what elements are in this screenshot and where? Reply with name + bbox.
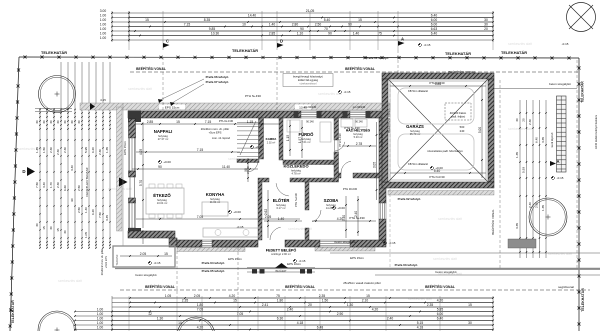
svg-text:TERASZ: TERASZ (115, 254, 119, 265)
svg-text:1.00: 1.00 (97, 312, 104, 316)
svg-text:1.00: 1.00 (100, 32, 107, 36)
svg-text:90: 90 (70, 198, 74, 202)
svg-text:helyiség: helyiség (158, 134, 168, 138)
svg-text:15: 15 (233, 299, 237, 303)
svg-text:3.40: 3.40 (342, 215, 346, 221)
svg-text:-0.15: -0.15 (389, 241, 396, 245)
svg-text:7.50: 7.50 (98, 212, 102, 218)
svg-text:2.40: 2.40 (287, 308, 294, 312)
svg-text:1.10: 1.10 (297, 32, 304, 36)
svg-text:5.95: 5.95 (84, 147, 88, 153)
svg-text:NAPPALI: NAPPALI (154, 129, 173, 134)
svg-text:helyiség: helyiség (157, 198, 167, 202)
svg-text:FEDETLEN TERASZ: FEDETLEN TERASZ (85, 167, 89, 196)
svg-text:-0.15: -0.15 (562, 42, 569, 46)
svg-text:PTH N+F30: PTH N+F30 (344, 126, 360, 130)
svg-text:1.50: 1.50 (322, 299, 329, 303)
svg-text:ACO kültéri lefolyó fedrács: ACO kültéri lefolyó fedrács (594, 114, 598, 149)
svg-text:+0.00: +0.00 (337, 206, 345, 210)
svg-text:2.30: 2.30 (63, 147, 67, 153)
svg-text:3.05: 3.05 (372, 162, 376, 168)
svg-text:90: 90 (328, 32, 332, 36)
svg-text:20: 20 (522, 118, 526, 122)
svg-text:1.00: 1.00 (100, 18, 107, 22)
svg-text:Prefa 06 lefolyó: Prefa 06 lefolyó (206, 75, 229, 79)
svg-text:4.78 m²: 4.78 m² (291, 172, 300, 176)
svg-text:TELEKHATÁR: TELEKHATÁR (232, 48, 258, 53)
svg-text:27.37 m²: 27.37 m² (158, 137, 169, 141)
svg-text:6.40: 6.40 (431, 14, 438, 18)
svg-text:KÖZLEKEDŐ: KÖZLEKEDŐ (283, 164, 308, 169)
svg-text:30: 30 (63, 230, 67, 234)
svg-text:2.40: 2.40 (387, 317, 394, 321)
svg-text:-0.15: -0.15 (344, 90, 351, 94)
svg-text:ÉTKEZŐ: ÉTKEZŐ (153, 193, 171, 198)
svg-text:1.35: 1.35 (541, 205, 545, 211)
svg-text:2.40: 2.40 (528, 202, 532, 208)
svg-text:30: 30 (515, 118, 519, 122)
svg-text:D: D (280, 39, 283, 44)
svg-text:D: D (22, 169, 25, 174)
svg-text:+0.00: +0.00 (435, 166, 443, 170)
svg-text:kerti lépcső: kerti lépcső (550, 132, 554, 147)
svg-text:szerkesztés alatt: szerkesztés alatt (128, 87, 152, 91)
svg-text:240: 240 (460, 129, 465, 133)
svg-text:7.01 m²: 7.01 m² (301, 140, 310, 144)
svg-text:C: C (166, 39, 169, 44)
svg-text:KAMRA: KAMRA (266, 137, 278, 141)
svg-text:11.40: 11.40 (222, 165, 230, 169)
svg-text:beton szegélykő: beton szegélykő (549, 82, 571, 86)
svg-text:padl. feljáró: padl. feljáró (451, 115, 466, 119)
svg-text:Prefa 05 lefolyó: Prefa 05 lefolyó (202, 269, 225, 273)
svg-text:1.40: 1.40 (278, 217, 285, 221)
svg-text:15: 15 (468, 303, 472, 307)
svg-text:2.05: 2.05 (194, 294, 201, 298)
svg-text:20x40cm mon. vb. pillér: 20x40cm mon. vb. pillér (201, 127, 229, 131)
svg-text:2.02 m²: 2.02 m² (267, 141, 276, 144)
svg-text:2.85: 2.85 (147, 120, 154, 124)
svg-text:PTH N-F30: PTH N-F30 (338, 133, 342, 147)
svg-text:4.18: 4.18 (417, 326, 424, 330)
svg-text:90 240: 90 240 (355, 121, 363, 124)
svg-text:15: 15 (366, 294, 370, 298)
svg-text:2.85: 2.85 (269, 32, 276, 36)
svg-text:5.15: 5.15 (417, 321, 424, 325)
svg-text:3.40: 3.40 (70, 165, 74, 171)
svg-text:kültéri fali egység: kültéri fali egység (298, 78, 319, 82)
svg-text:EPS 15cm: EPS 15cm (350, 256, 364, 260)
svg-text:30: 30 (484, 18, 488, 22)
svg-text:+5cm EPS: +5cm EPS (209, 131, 222, 135)
svg-text:BEÉPÍTÉSI VONAL: BEÉPÍTÉSI VONAL (136, 66, 166, 71)
svg-text:Prefa 04 lefolyó: Prefa 04 lefolyó (202, 261, 225, 265)
svg-text:2.10: 2.10 (362, 299, 369, 303)
svg-text:1.70: 1.70 (49, 182, 53, 188)
svg-text:30: 30 (63, 120, 67, 124)
svg-text:TELEKHATÁR: TELEKHATÁR (501, 50, 527, 55)
svg-text:15: 15 (164, 252, 168, 256)
svg-text:KB 5cm dilatáció: KB 5cm dilatáció (408, 162, 429, 166)
svg-text:6.17 m²: 6.17 m² (276, 206, 285, 210)
svg-text:240 90: 240 90 (247, 166, 250, 174)
svg-text:30: 30 (35, 120, 39, 124)
svg-text:helyiség: helyiség (410, 129, 420, 133)
svg-text:BEÉPÍTÉSI VONAL: BEÉPÍTÉSI VONAL (345, 66, 375, 71)
svg-text:6.20: 6.20 (91, 147, 95, 153)
svg-text:helyiség: helyiség (291, 168, 301, 172)
svg-text:TELEKHATÁR: TELEKHATÁR (445, 51, 471, 56)
svg-text:beton szegélykő: beton szegélykő (436, 270, 457, 274)
svg-text:10: 10 (242, 23, 246, 27)
svg-text:2.30: 2.30 (56, 182, 60, 188)
svg-text:4.15: 4.15 (100, 98, 106, 102)
svg-text:PTH N+F30: PTH N+F30 (245, 94, 261, 98)
svg-text:3.45: 3.45 (105, 215, 109, 221)
svg-text:20x40cm mon. vb. pillér: 20x40cm mon. vb. pillér (101, 249, 104, 276)
svg-text:1.00: 1.00 (97, 321, 104, 325)
svg-text:SZOBA: SZOBA (324, 198, 339, 203)
svg-text:30: 30 (484, 23, 488, 27)
svg-text:1.30: 1.30 (157, 317, 164, 321)
svg-text:1.00: 1.00 (100, 27, 107, 31)
svg-text:helyiség: helyiség (276, 203, 286, 207)
svg-text:A: A (556, 159, 559, 164)
svg-text:1.45: 1.45 (35, 147, 39, 153)
svg-text:PTH N-F30: PTH N-F30 (429, 81, 445, 85)
svg-text:szerkesztés alatt: szerkesztés alatt (438, 217, 462, 221)
svg-text:-0.15: -0.15 (424, 43, 431, 47)
svg-text:1.40: 1.40 (269, 23, 276, 27)
svg-text:30: 30 (49, 226, 53, 230)
svg-text:4.18: 4.18 (297, 321, 304, 325)
svg-text:25x25cm vasalt zsaluzó pillér: 25x25cm vasalt zsaluzó pillér (343, 281, 381, 285)
svg-text:TELEKHATÁR: TELEKHATÁR (580, 288, 585, 312)
svg-text:1.80: 1.80 (197, 303, 204, 307)
svg-text:30: 30 (70, 120, 74, 124)
svg-text:2.50: 2.50 (77, 207, 81, 213)
svg-text:Prefa 03 lefolyó: Prefa 03 lefolyó (395, 263, 418, 267)
svg-text:KONYHA: KONYHA (206, 192, 225, 197)
svg-text:2.30: 2.30 (528, 119, 532, 125)
svg-text:5.00: 5.00 (478, 127, 482, 133)
svg-text:6.00: 6.00 (431, 18, 438, 22)
svg-text:helyiség: helyiség (326, 203, 336, 207)
svg-text:2.30: 2.30 (49, 147, 53, 153)
svg-text:15: 15 (145, 18, 149, 22)
svg-text:1.05: 1.05 (165, 294, 172, 298)
svg-text:A: A (401, 37, 404, 42)
svg-text:35.70 m²: 35.70 m² (410, 132, 421, 136)
svg-text:Prefa 07 lefolyó: Prefa 07 lefolyó (206, 80, 229, 84)
svg-text:Prefa 01 lefolyó: Prefa 01 lefolyó (366, 56, 389, 60)
svg-text:5.93: 5.93 (522, 167, 526, 173)
svg-text:4.20: 4.20 (197, 326, 204, 330)
svg-text:helyiség: helyiség (210, 197, 220, 201)
svg-text:vízelvezetéssel: vízelvezetéssel (300, 82, 317, 85)
svg-text:1.80: 1.80 (277, 299, 284, 303)
svg-text:13.04 m²: 13.04 m² (157, 201, 168, 205)
svg-text:30: 30 (42, 120, 46, 124)
svg-text:10: 10 (178, 321, 182, 325)
svg-text:7.15: 7.15 (184, 23, 191, 27)
svg-text:helyiség: helyiség (301, 137, 311, 141)
svg-text:6.30: 6.30 (277, 317, 284, 321)
svg-text:90: 90 (158, 165, 162, 169)
svg-text:4.20: 4.20 (372, 308, 379, 312)
svg-text:1.05: 1.05 (84, 232, 88, 238)
svg-text:szerkesztés alatt: szerkesztés alatt (508, 42, 532, 46)
svg-text:KB 5cm dilatáció: KB 5cm dilatáció (408, 89, 429, 93)
svg-text:2.35: 2.35 (182, 299, 189, 303)
svg-text:15: 15 (176, 120, 180, 124)
svg-text:12: 12 (148, 312, 152, 316)
svg-text:TELEKHATÁR: TELEKHATÁR (41, 50, 67, 55)
svg-text:PTH N-F30: PTH N-F30 (380, 133, 384, 147)
svg-text:EPS 15cm: EPS 15cm (228, 257, 242, 261)
svg-text:1.35: 1.35 (105, 147, 109, 153)
svg-text:+0.00: +0.00 (163, 160, 171, 164)
svg-text:szerkesztés alatt: szerkesztés alatt (408, 297, 432, 301)
svg-text:BEJÁRAT: BEJÁRAT (275, 270, 287, 273)
svg-text:1.00: 1.00 (100, 23, 107, 27)
svg-text:1.15: 1.15 (286, 135, 290, 141)
svg-text:BEÉPÍTÉSI VONAL: BEÉPÍTÉSI VONAL (285, 284, 315, 289)
svg-text:5.20 m²: 5.20 m² (354, 135, 363, 139)
svg-text:1.35: 1.35 (515, 152, 519, 158)
svg-text:2.90: 2.90 (337, 312, 344, 316)
svg-text:10.30: 10.30 (211, 32, 219, 36)
svg-text:+0.00: +0.00 (233, 210, 241, 214)
svg-text:1.00: 1.00 (97, 317, 104, 321)
svg-text:75: 75 (378, 32, 382, 36)
svg-text:FEDETT BELÉPŐ: FEDETT BELÉPŐ (266, 248, 297, 253)
svg-text:1.00: 1.00 (100, 14, 107, 18)
svg-text:20: 20 (308, 303, 312, 307)
svg-text:3.40: 3.40 (42, 182, 46, 188)
svg-text:6.20: 6.20 (91, 209, 95, 215)
svg-text:5.70: 5.70 (139, 180, 143, 186)
svg-text:3.00: 3.00 (100, 9, 107, 13)
svg-text:7.15: 7.15 (197, 148, 204, 152)
svg-text:2.78: 2.78 (356, 142, 363, 146)
svg-text:pro 90/240: pro 90/240 (353, 105, 366, 109)
svg-text:üzemeltetés padl. hőszivattyú: üzemeltetés padl. hőszivattyú (427, 149, 463, 153)
svg-text:9.85: 9.85 (209, 27, 216, 31)
svg-text:PTH H-F30: PTH H-F30 (219, 119, 234, 123)
svg-text:TELEKHATÁR: TELEKHATÁR (580, 81, 585, 103)
svg-text:PTH N+F30: PTH N+F30 (294, 193, 298, 207)
svg-text:15: 15 (358, 18, 362, 22)
svg-text:PTH N-F30: PTH N-F30 (429, 175, 445, 179)
svg-text:2.50: 2.50 (77, 185, 81, 191)
svg-text:14.40: 14.40 (248, 14, 256, 18)
svg-text:pro 90/240: pro 90/240 (304, 105, 317, 109)
svg-text:1.40: 1.40 (84, 207, 88, 213)
svg-text:3.35: 3.35 (515, 223, 519, 229)
svg-text:-0.15: -0.15 (557, 176, 564, 180)
svg-text:-0.15: -0.15 (154, 261, 161, 265)
svg-text:2.41: 2.41 (262, 303, 269, 307)
svg-text:1.50: 1.50 (42, 147, 46, 153)
svg-text:szerkesztés alatt: szerkesztés alatt (433, 257, 457, 261)
svg-text:BEÉPÍTÉSI VONAL: BEÉPÍTÉSI VONAL (490, 209, 495, 235)
svg-text:ELŐTÉR: ELŐTÉR (273, 198, 290, 203)
svg-text:30: 30 (35, 223, 39, 227)
svg-text:70: 70 (324, 27, 328, 31)
svg-text:2.62: 2.62 (264, 209, 268, 215)
svg-text:2.60: 2.60 (535, 202, 539, 208)
svg-text:szélfogó 2.90 m²: szélfogó 2.90 m² (271, 252, 291, 256)
svg-text:-0.15: -0.15 (299, 259, 306, 263)
svg-text:7.15: 7.15 (205, 120, 212, 124)
svg-text:PTH N+F30: PTH N+F30 (349, 216, 365, 220)
svg-text:11.61 m²: 11.61 m² (210, 200, 221, 204)
svg-text:FÜRDŐ: FÜRDŐ (299, 132, 315, 137)
svg-text:TELEKHATÁR: TELEKHATÁR (10, 300, 15, 324)
svg-text:5.40: 5.40 (324, 18, 331, 22)
svg-text:2.35: 2.35 (427, 303, 434, 307)
svg-text:EPS 15cm: EPS 15cm (165, 105, 180, 109)
svg-text:8.35: 8.35 (204, 18, 211, 22)
svg-text:Prefa 02 lefolyó: Prefa 02 lefolyó (398, 197, 421, 201)
svg-text:20: 20 (484, 27, 488, 31)
svg-text:szerkesztés alatt: szerkesztés alatt (58, 279, 82, 283)
svg-text:1.15: 1.15 (247, 120, 254, 124)
svg-text:2.50: 2.50 (315, 23, 322, 27)
svg-text:beton szegélykő: beton szegélykő (136, 273, 157, 277)
svg-text:-0.15: -0.15 (237, 225, 244, 229)
svg-text:7.05: 7.05 (197, 215, 204, 219)
svg-text:7.05: 7.05 (237, 312, 244, 316)
svg-text:6.63: 6.63 (431, 27, 438, 31)
svg-text:30: 30 (49, 120, 53, 124)
svg-text:szerkesztés alatt: szerkesztés alatt (548, 252, 572, 256)
svg-text:4.05: 4.05 (139, 149, 143, 155)
svg-text:1.00: 1.00 (100, 36, 107, 40)
svg-text:BEÉPÍTÉSI VONAL: BEÉPÍTÉSI VONAL (145, 284, 175, 289)
svg-text:EPS 15cm: EPS 15cm (123, 141, 127, 155)
svg-text:30: 30 (468, 321, 472, 325)
svg-text:15: 15 (56, 228, 60, 232)
svg-text:GARÁZS: GARÁZS (406, 124, 424, 129)
svg-text:7.50: 7.50 (35, 182, 39, 188)
svg-text:30: 30 (56, 120, 60, 124)
svg-text:beton szegélykő: beton szegélykő (335, 240, 356, 244)
svg-text:3.35: 3.35 (541, 137, 545, 143)
svg-text:30: 30 (77, 120, 81, 124)
svg-text:PTH 30-F30: PTH 30-F30 (343, 187, 358, 191)
svg-text:2.05: 2.05 (140, 252, 147, 256)
svg-text:+5cm EPS: +5cm EPS (105, 256, 108, 268)
svg-text:2.30: 2.30 (98, 149, 102, 155)
svg-text:1.00: 1.00 (97, 308, 104, 312)
svg-text:2.35: 2.35 (319, 294, 326, 298)
svg-text:4.20: 4.20 (229, 294, 236, 298)
svg-text:mon. vb. lépcső: mon. vb. lépcső (212, 136, 231, 140)
svg-text:6.40: 6.40 (535, 137, 539, 143)
svg-text:90: 90 (300, 27, 304, 31)
svg-text:2.30: 2.30 (56, 149, 60, 155)
svg-text:6.60: 6.60 (63, 185, 67, 191)
svg-text:6.00: 6.00 (431, 23, 438, 27)
svg-text:BEÉPÍTÉSI VONAL: BEÉPÍTÉSI VONAL (425, 284, 455, 289)
svg-text:1.40: 1.40 (353, 32, 360, 36)
svg-text:7.05: 7.05 (197, 308, 204, 312)
svg-text:90 240: 90 240 (306, 121, 314, 124)
svg-text:+0.00: +0.00 (255, 145, 263, 149)
svg-text:75: 75 (276, 294, 280, 298)
svg-text:15: 15 (42, 226, 46, 230)
svg-text:segítővonal: segítővonal (558, 285, 574, 289)
svg-text:1.00: 1.00 (97, 326, 104, 330)
svg-text:6.40: 6.40 (431, 32, 438, 36)
svg-text:2.80: 2.80 (292, 23, 299, 27)
